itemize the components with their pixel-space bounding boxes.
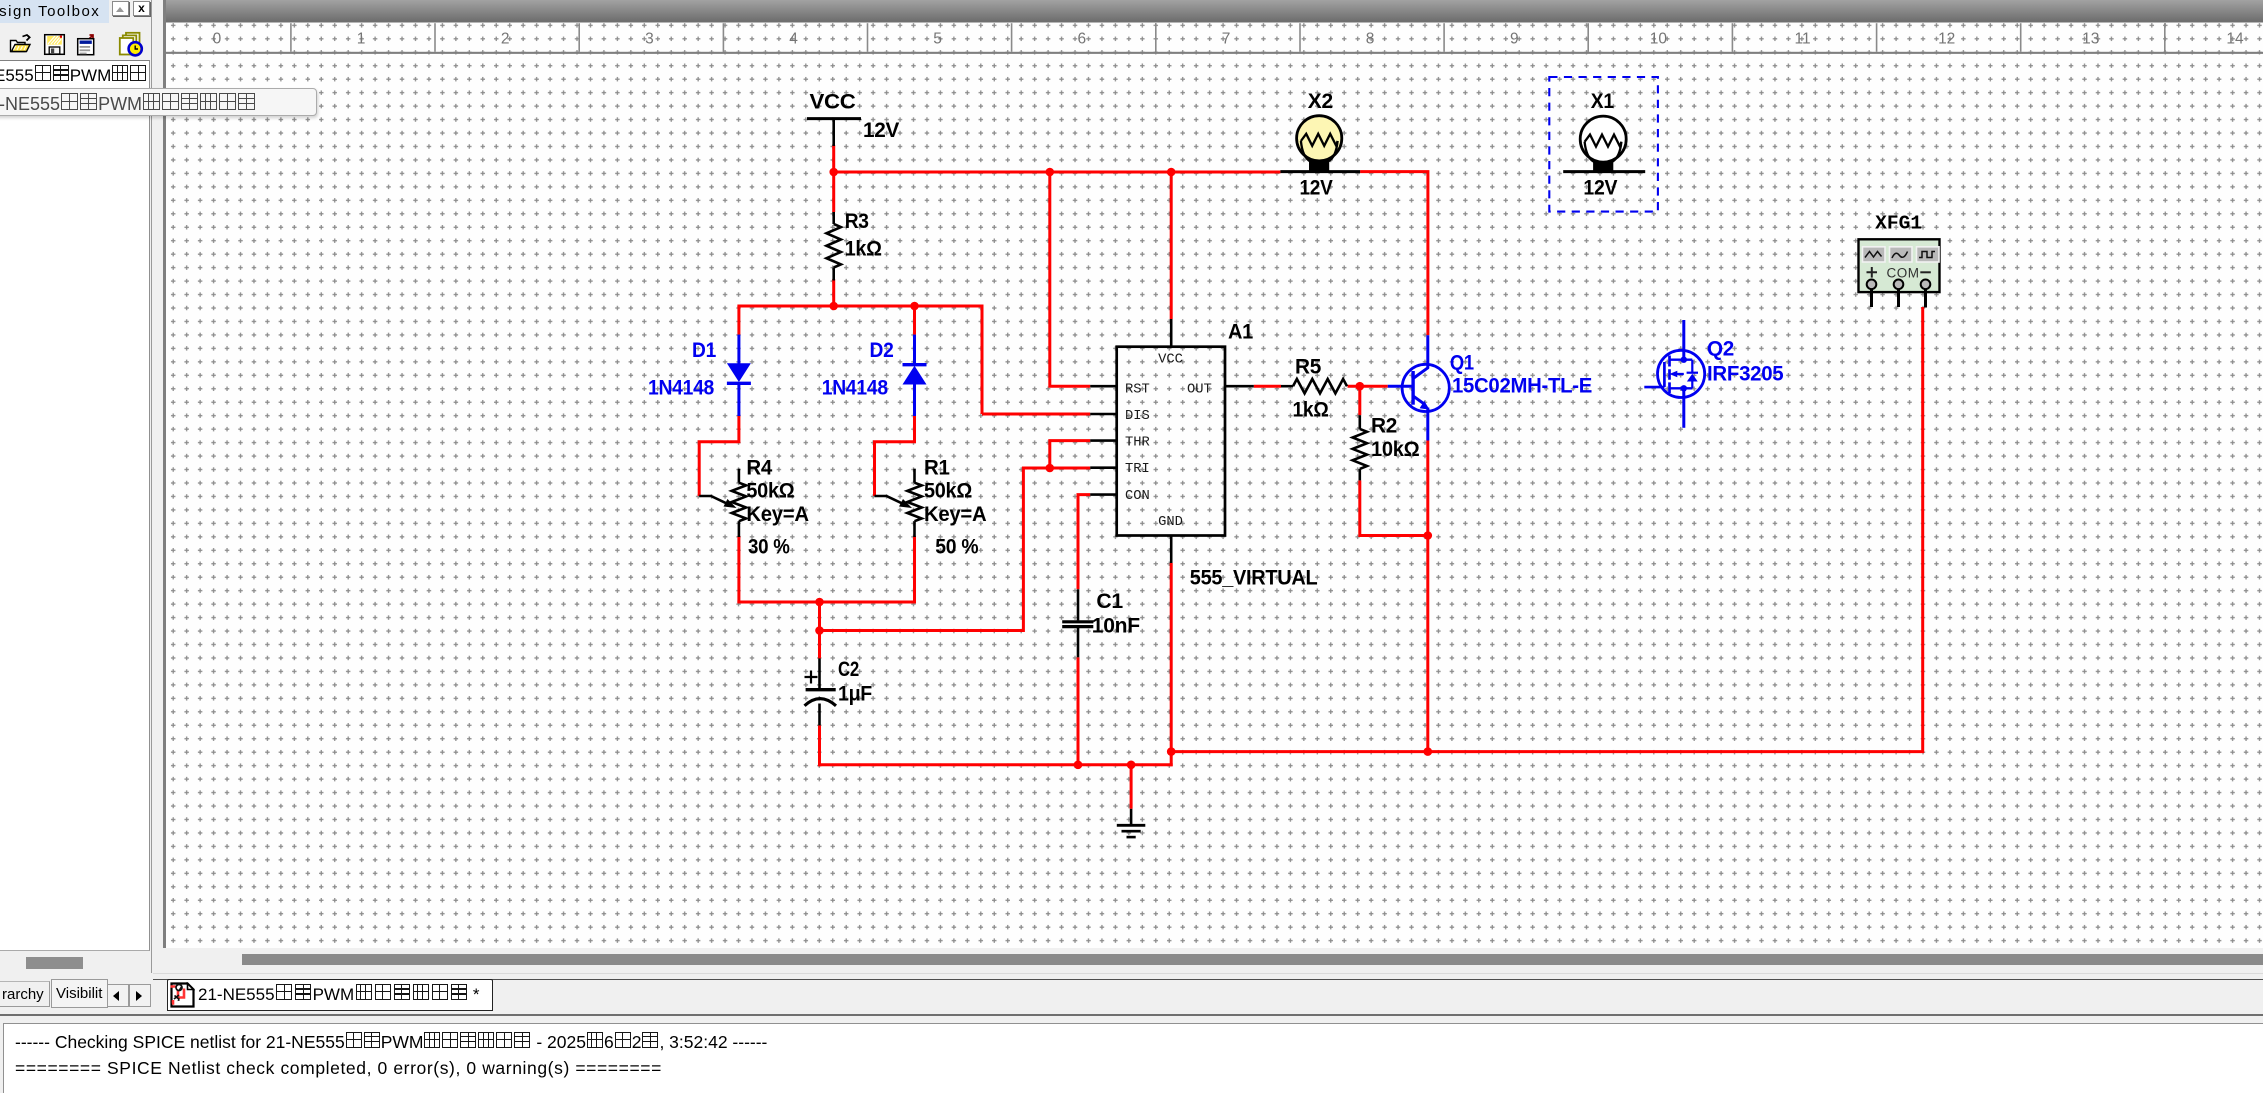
- svg-text:8: 8: [1366, 31, 1375, 48]
- svg-text:10kΩ: 10kΩ: [1371, 438, 1419, 461]
- svg-text:IRF3205: IRF3205: [1707, 363, 1784, 386]
- svg-text:4: 4: [789, 31, 798, 48]
- svg-text:7: 7: [1222, 31, 1231, 48]
- svg-text:1N4148: 1N4148: [648, 377, 715, 400]
- svg-text:50 %: 50 %: [935, 536, 979, 559]
- svg-text:RST: RST: [1125, 382, 1150, 397]
- svg-text:VCC: VCC: [810, 91, 856, 114]
- svg-text:R2: R2: [1371, 415, 1397, 438]
- svg-text:12: 12: [1938, 31, 1955, 48]
- svg-text:5: 5: [933, 31, 942, 48]
- svg-text:XFG1: XFG1: [1875, 213, 1922, 235]
- svg-text:OUT: OUT: [1187, 382, 1212, 397]
- svg-text:10: 10: [1650, 31, 1668, 48]
- svg-text:THR: THR: [1125, 436, 1150, 451]
- svg-text:R5: R5: [1295, 356, 1322, 379]
- svg-text:6: 6: [1077, 31, 1086, 48]
- svg-text:11: 11: [1795, 31, 1811, 48]
- svg-text:12V: 12V: [863, 119, 899, 142]
- svg-text:X1: X1: [1591, 90, 1615, 113]
- svg-text:R3: R3: [845, 210, 869, 233]
- svg-text:R1: R1: [924, 457, 950, 480]
- svg-text:13: 13: [2082, 31, 2099, 48]
- svg-text:CON: CON: [1125, 489, 1150, 504]
- svg-text:X2: X2: [1308, 90, 1333, 113]
- svg-text:Key=A: Key=A: [746, 503, 809, 526]
- svg-text:Q2: Q2: [1707, 338, 1734, 361]
- svg-text:C2: C2: [838, 658, 859, 681]
- svg-text:R4: R4: [746, 457, 772, 480]
- svg-text:12V: 12V: [1300, 177, 1333, 200]
- svg-text:VCC: VCC: [1158, 353, 1183, 368]
- svg-text:C1: C1: [1096, 590, 1123, 613]
- svg-text:Q1: Q1: [1450, 352, 1475, 375]
- svg-text:GND: GND: [1158, 515, 1183, 530]
- svg-text:1μF: 1μF: [838, 683, 872, 706]
- svg-text:2: 2: [501, 31, 510, 48]
- svg-text:30 %: 30 %: [748, 536, 790, 559]
- svg-text:0: 0: [213, 31, 222, 48]
- svg-text:1: 1: [357, 31, 366, 48]
- svg-text:15C02MH-TL-E: 15C02MH-TL-E: [1452, 375, 1592, 398]
- svg-text:COM: COM: [1887, 266, 1920, 281]
- svg-text:1N4148: 1N4148: [822, 377, 889, 400]
- svg-text:1kΩ: 1kΩ: [1293, 399, 1329, 422]
- svg-text:DIS: DIS: [1125, 409, 1150, 424]
- svg-text:3: 3: [645, 31, 654, 48]
- svg-text:10nF: 10nF: [1092, 615, 1140, 638]
- svg-text:Key=A: Key=A: [924, 503, 987, 526]
- svg-text:A1: A1: [1228, 321, 1254, 344]
- svg-text:555_VIRTUAL: 555_VIRTUAL: [1190, 567, 1318, 590]
- svg-text:50kΩ: 50kΩ: [746, 480, 794, 503]
- svg-text:D1: D1: [692, 339, 717, 362]
- svg-text:14: 14: [2226, 31, 2244, 48]
- svg-text:12V: 12V: [1583, 177, 1617, 200]
- svg-text:1kΩ: 1kΩ: [845, 238, 882, 261]
- svg-text:50kΩ: 50kΩ: [924, 480, 972, 503]
- svg-text:TRI: TRI: [1125, 462, 1150, 477]
- svg-text:9: 9: [1510, 31, 1519, 48]
- svg-text:D2: D2: [870, 339, 894, 362]
